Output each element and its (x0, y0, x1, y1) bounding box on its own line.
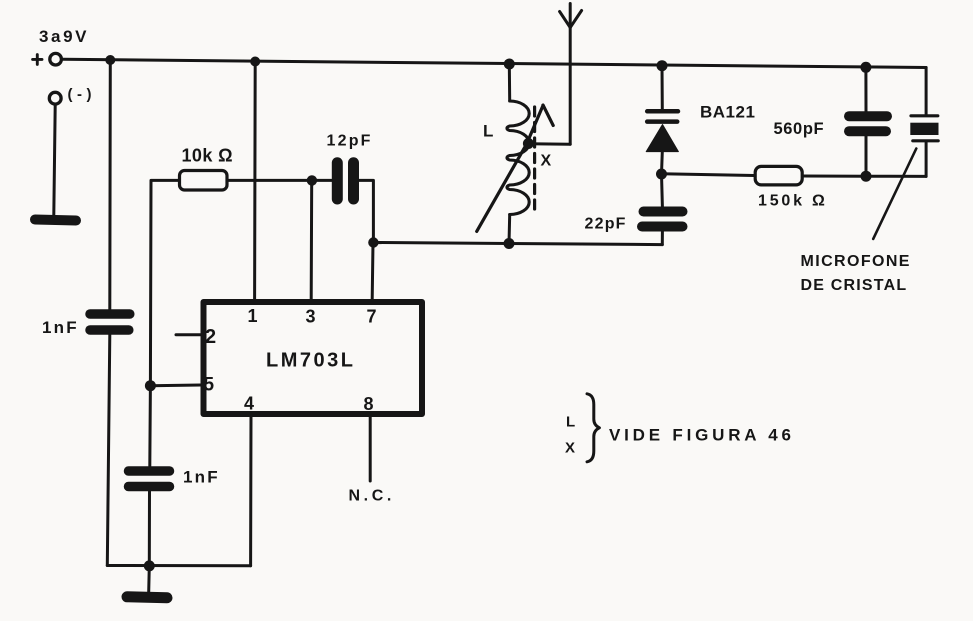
wire R1 to node F (227, 179, 312, 182)
wire ground stub (147, 566, 151, 592)
capacitor C5 560pF plates (849, 116, 887, 131)
mic pointer line (873, 149, 916, 239)
node top rail B (250, 57, 260, 67)
svg-text:150k Ω: 150k Ω (758, 193, 828, 210)
svg-text:4: 4 (244, 394, 254, 414)
svg-text:1nF: 1nF (42, 318, 79, 337)
capacitor C2 1nF plates (129, 471, 170, 487)
microphone MIC1 crystal (910, 116, 938, 141)
wire node J to R2 (662, 174, 755, 176)
note brace (587, 394, 599, 462)
node top rail D (657, 60, 668, 71)
wire C5 top (864, 67, 867, 111)
node top rail E (860, 62, 871, 73)
ground G2 (127, 597, 167, 598)
svg-text:10k Ω: 10k Ω (182, 146, 233, 166)
svg-text:3a9V: 3a9V (39, 27, 89, 46)
node coil tap (523, 138, 534, 149)
svg-text:7: 7 (367, 307, 377, 327)
wire node G to pin7 (371, 243, 375, 300)
pin 2 stub (176, 333, 201, 336)
node coil bottom (504, 238, 515, 249)
wire pin 4 down (249, 414, 252, 566)
wire pin 8 down (369, 414, 372, 481)
node I bottom rail (144, 560, 155, 571)
svg-text:BA121: BA121 (700, 103, 755, 122)
svg-text:1nF: 1nF (183, 468, 220, 487)
capacitor C3 12pF plates (337, 163, 353, 199)
svg-text:1: 1 (248, 306, 258, 326)
svg-text:X: X (541, 153, 552, 170)
svg-text:3: 3 (306, 307, 316, 327)
svg-text:DE CRISTAL: DE CRISTAL (801, 277, 908, 294)
wire node K to mic bottom (866, 175, 926, 178)
wire minus terminal to ground (54, 105, 55, 215)
svg-text:22pF: 22pF (585, 216, 627, 233)
plus sign (33, 55, 42, 65)
wire mid column below C2 (148, 492, 151, 566)
ground G1 (35, 220, 76, 221)
capacitor C1 1nF plates (90, 314, 130, 330)
diode D1 triangle (646, 125, 678, 152)
battery + terminal (50, 53, 62, 65)
diode D1 varicap plates (647, 111, 678, 121)
wire mid column x151 upper (150, 180, 178, 385)
wire tap to antenna (528, 142, 570, 146)
node top rail A (105, 55, 115, 65)
diode D1 BA121 wire from rail (661, 66, 664, 110)
resistor R1 10k (180, 171, 228, 191)
svg-text:8: 8 (364, 394, 374, 414)
node top rail C (504, 59, 515, 70)
wire C3 right to node G (359, 180, 373, 242)
node K (861, 171, 872, 182)
svg-text:L: L (566, 414, 575, 431)
wire mic bottom (925, 143, 928, 177)
node F (307, 175, 317, 185)
inductor L coil (507, 101, 529, 215)
wire coil bottom (508, 215, 512, 244)
wire pin1 from rail (253, 62, 257, 300)
wire C5 bottom to node K (865, 136, 868, 176)
resistor R2 150k (755, 166, 802, 185)
wire top rail (63, 59, 926, 67)
wire lower rail G to 22pF (373, 243, 662, 245)
svg-text:N.C.: N.C. (349, 488, 395, 505)
svg-text:12pF: 12pF (327, 133, 373, 150)
capacitor C4 22pF plates (642, 212, 683, 227)
wire left column x110 lower (107, 335, 110, 566)
node J (656, 169, 667, 180)
wire mid column x151 lower (148, 386, 152, 466)
wire pin 5 to node H (150, 384, 200, 388)
wire left column x110 upper (108, 60, 112, 310)
wire node F to pin3 (310, 180, 314, 299)
wire bottom rail (107, 564, 250, 567)
svg-text:L: L (483, 122, 493, 141)
dashed core line X (533, 107, 536, 209)
wire node F to C3 (312, 179, 332, 182)
node H pin5 junction (145, 380, 156, 391)
svg-text:(-): (-) (68, 86, 97, 103)
wire rail to mic top (925, 68, 928, 115)
battery - terminal (49, 92, 61, 104)
node G (368, 237, 378, 247)
wire D1 to node J (660, 152, 664, 174)
svg-text:MICROFONE: MICROFONE (801, 253, 911, 270)
tuning arrow (477, 105, 554, 231)
svg-text:5: 5 (204, 375, 215, 396)
svg-text:560pF: 560pF (774, 120, 825, 138)
wire coil top from rail (508, 64, 511, 101)
antenna (560, 4, 582, 145)
wire R2 to node K (803, 175, 867, 178)
svg-text:VIDE FIGURA 46: VIDE FIGURA 46 (609, 426, 795, 445)
svg-text:X: X (565, 440, 575, 457)
svg-text:2: 2 (205, 326, 216, 348)
IC U1 LM703L box (204, 302, 423, 414)
svg-text:LM703L: LM703L (266, 350, 355, 372)
wire node J down to C4 (660, 174, 664, 207)
wire C4 bottom to rail (661, 231, 664, 245)
